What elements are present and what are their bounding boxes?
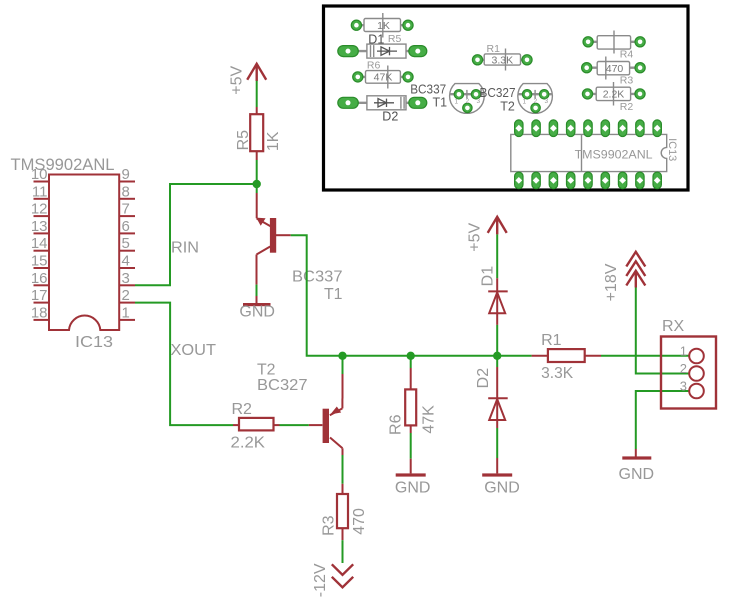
svg-text:R2: R2 [232, 401, 253, 418]
pin 11 [32, 183, 49, 200]
resistor R2 2.2K [231, 401, 280, 452]
svg-text:3.3K: 3.3K [491, 54, 513, 66]
resistor R5 footprint (inset) [351, 13, 413, 47]
pin 16 [31, 270, 49, 287]
wire R2 to T2 base [280, 424, 309, 426]
svg-text:2: 2 [122, 287, 130, 304]
transistor T1 footprint (inset) [410, 83, 484, 114]
svg-text:+18V: +18V [603, 263, 620, 301]
svg-text:2: 2 [466, 98, 470, 105]
resistor R4 footprint (inset) [583, 31, 645, 61]
wire +5V to D1 [496, 234, 498, 278]
pin 1 [119, 304, 135, 321]
svg-text:GND: GND [619, 466, 655, 483]
IC13 footprint (inset) [511, 134, 678, 171]
pin 8 [119, 183, 135, 200]
pin 1 of RX [680, 344, 704, 364]
svg-text:R3: R3 [320, 515, 337, 536]
wire R6 to GND [410, 433, 412, 459]
svg-text:BC337: BC337 [292, 269, 343, 286]
resistor R5 1K [235, 107, 282, 160]
svg-text:1: 1 [523, 99, 527, 106]
svg-text:GND: GND [395, 480, 431, 497]
svg-text:3.3K: 3.3K [541, 365, 573, 382]
wire XOUT net from pin 2 to R2 [135, 303, 233, 426]
pin 4 [119, 253, 135, 270]
svg-text:8: 8 [122, 183, 130, 200]
svg-text:6: 6 [122, 218, 130, 235]
svg-text:16: 16 [31, 270, 48, 287]
svg-text:-12V: -12V [312, 563, 329, 597]
svg-text:3: 3 [122, 270, 130, 287]
svg-text:TMS9902ANL: TMS9902ANL [11, 155, 115, 174]
pin 6 [119, 218, 135, 235]
wire T1 collector to GND [256, 285, 258, 296]
wire T1 base to bus [291, 235, 532, 356]
svg-text:4: 4 [122, 253, 130, 270]
svg-text:9: 9 [122, 166, 130, 183]
wire R1 to RX pin 1 [601, 355, 689, 357]
svg-text:2.2K: 2.2K [231, 435, 266, 452]
pin 14 [31, 235, 49, 252]
svg-text:47K: 47K [421, 405, 438, 434]
resistor R3 footprint (inset) [582, 57, 646, 87]
transistor Q T1 BC337 [256, 193, 342, 303]
pin 5 [119, 235, 135, 252]
resistor R6 47K [387, 356, 437, 435]
svg-text:R4: R4 [620, 49, 634, 61]
svg-text:11: 11 [32, 183, 48, 200]
svg-text:T2: T2 [257, 362, 276, 379]
svg-text:GND: GND [484, 480, 520, 497]
svg-text:XOUT: XOUT [171, 342, 217, 359]
node junction D1/D2 on bus [493, 352, 501, 360]
diode D1 [479, 266, 507, 325]
pin 10 [31, 166, 49, 183]
svg-text:470: 470 [351, 508, 368, 535]
svg-text:1: 1 [680, 344, 687, 359]
svg-text:17: 17 [31, 287, 48, 304]
svg-text:7: 7 [122, 201, 130, 218]
pin 2 of RX [680, 361, 704, 381]
svg-text:3: 3 [680, 379, 687, 394]
resistor R6 footprint (inset) [353, 60, 413, 89]
svg-text:3: 3 [545, 98, 549, 105]
diode D2 footprint (inset) [338, 96, 427, 124]
pin 2 [119, 287, 135, 304]
wire R5 to node [256, 160, 258, 193]
pin 9 [119, 166, 135, 183]
transistor Q T2 BC327 [257, 362, 343, 456]
resistor R1 footprint (inset) [472, 43, 532, 71]
svg-text:R5: R5 [235, 130, 252, 151]
svg-text:RX: RX [662, 318, 685, 335]
svg-text:1: 1 [122, 304, 130, 321]
node junction T2 emitter on bus [338, 352, 346, 360]
ground GND under RX [619, 449, 655, 483]
IC13 pads top row (inset) [515, 120, 662, 137]
svg-text:18: 18 [31, 304, 48, 321]
svg-text:R6: R6 [367, 60, 381, 72]
svg-text:T2: T2 [500, 100, 515, 114]
svg-text:TMS9902ANL: TMS9902ANL [575, 148, 653, 162]
svg-text:R3: R3 [620, 75, 634, 87]
svg-text:IC13: IC13 [75, 334, 113, 351]
IC13 pads bottom row (inset) [515, 172, 662, 189]
pin 15 [31, 253, 49, 270]
pin 3 [119, 270, 135, 287]
power +5V supply symbol (left) [229, 64, 267, 95]
svg-text:+5V: +5V [466, 223, 483, 252]
svg-text:+5V: +5V [229, 66, 246, 95]
node junction R6 on bus [407, 352, 415, 360]
svg-text:T1: T1 [433, 96, 448, 110]
svg-text:BC337: BC337 [410, 83, 446, 97]
svg-text:12: 12 [31, 201, 48, 218]
svg-text:D2: D2 [382, 110, 398, 124]
power +5V supply symbol (right) [466, 217, 506, 252]
svg-text:2.2K: 2.2K [603, 89, 625, 101]
svg-text:5: 5 [122, 235, 130, 252]
diode D2 [475, 367, 508, 428]
svg-text:BC327: BC327 [257, 377, 308, 394]
svg-text:13: 13 [31, 218, 48, 235]
wire D2 to GND [496, 428, 498, 458]
node junction R5/RIN/T1 [253, 180, 261, 188]
transistor T2 footprint (inset) [480, 84, 553, 114]
connector RX [661, 318, 716, 409]
svg-text:470: 470 [606, 63, 624, 75]
svg-text:D1: D1 [479, 266, 496, 287]
svg-text:R5: R5 [388, 33, 402, 45]
svg-text:1K: 1K [265, 131, 282, 151]
wire +18V to RX pin 2 [636, 288, 689, 374]
ground GND under T1 [239, 296, 275, 321]
resistor R1 3.3K [532, 332, 601, 382]
svg-text:15: 15 [31, 253, 48, 270]
wire bus node to T2 emitter [342, 356, 344, 374]
wire +5V to R5 [256, 81, 258, 107]
resistor R2 footprint (inset) [582, 82, 645, 113]
svg-text:T1: T1 [324, 286, 343, 303]
svg-text:14: 14 [31, 235, 48, 252]
svg-text:R2: R2 [620, 101, 634, 113]
pin 13 [31, 218, 49, 235]
power +18V supply symbol [603, 252, 645, 302]
wire D1 to bus node [496, 325, 498, 356]
svg-text:GND: GND [239, 304, 275, 321]
op-amp IC13 TMS9902ANL symbol body [11, 155, 120, 351]
svg-text:2: 2 [680, 361, 687, 376]
wire RX pin 3 to GND [636, 391, 690, 449]
pin 18 [31, 304, 49, 321]
svg-text:1: 1 [455, 99, 459, 106]
wire T2 collector to R3 [342, 455, 344, 484]
svg-text:1K: 1K [377, 20, 390, 32]
power -12V supply symbol [312, 563, 353, 597]
pin 17 [31, 287, 49, 304]
svg-text:47K: 47K [374, 72, 393, 84]
svg-text:R6: R6 [387, 414, 404, 435]
svg-text:10: 10 [31, 166, 48, 183]
pin 12 [31, 201, 49, 218]
pin 3 of RX [680, 379, 704, 399]
svg-text:R1: R1 [541, 332, 562, 349]
wire RIN net from pin 3 to R5/T1 node [135, 184, 257, 285]
svg-text:D2: D2 [475, 368, 492, 389]
svg-text:BC327: BC327 [480, 86, 516, 100]
diode D1 footprint (inset) [338, 44, 427, 58]
svg-text:RIN: RIN [171, 240, 199, 257]
resistor R3 470 [320, 484, 368, 540]
ground GND under D2 [482, 458, 520, 497]
wire R3 to -12V [342, 540, 344, 563]
wire bus node to D2 [496, 356, 498, 367]
ground GND under R6 [395, 459, 431, 497]
pin 7 [119, 201, 135, 218]
svg-text:2: 2 [534, 98, 538, 105]
svg-text:IC13: IC13 [666, 138, 678, 161]
PCB layout inset frame [324, 6, 689, 190]
